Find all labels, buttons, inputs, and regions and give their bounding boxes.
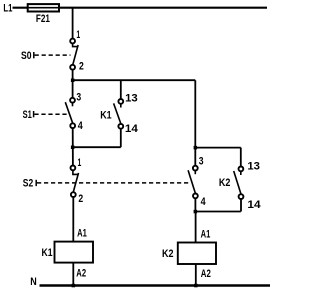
svg-text:3: 3 bbox=[199, 156, 204, 168]
svg-text:K2: K2 bbox=[219, 177, 231, 189]
wire: from S1 terminal 4 down to S2 terminal 1 bbox=[72, 128, 74, 165]
wire: from S2 pole1 terminal 2 down to coil K1 bbox=[72, 197, 74, 241]
svg-text:4: 4 bbox=[78, 120, 83, 132]
pushbutton S2 pole2 terminal circle 3 bbox=[193, 166, 198, 171]
contact K1 terminal circle 14 bbox=[118, 124, 123, 129]
wire: line through fuse body bbox=[28, 7, 59, 9]
svg-text:S2: S2 bbox=[23, 178, 33, 190]
svg-text:14: 14 bbox=[125, 123, 138, 135]
svg-text:K1: K1 bbox=[42, 247, 53, 259]
svg-text:2: 2 bbox=[78, 193, 83, 205]
wire: rejoin line from K1 branch back to main line bbox=[73, 146, 121, 148]
svg-text:13: 13 bbox=[247, 160, 260, 172]
S2 actuator dashed link across both poles bbox=[37, 182, 190, 184]
wire: S2 pole2 fixed contact stub below pin 3 bbox=[194, 171, 196, 175]
coil K1 bbox=[55, 242, 94, 263]
S0 actuator tick bbox=[33, 52, 35, 58]
svg-text:4: 4 bbox=[201, 196, 206, 208]
S0 actuator dashed link bbox=[35, 54, 71, 56]
pushbutton S0 terminal circle 1 bbox=[70, 39, 75, 44]
contact K2 terminal circle 13 bbox=[239, 167, 244, 172]
pushbutton S1 movable blade (NO) bbox=[65, 102, 72, 123]
wire: from S0 terminal 2 down to S1 terminal 3 bbox=[72, 70, 74, 98]
contact K1 terminal circle 13 bbox=[118, 99, 123, 104]
wire: main left vertical drop from top rail to S0 terminal 1 bbox=[72, 8, 74, 39]
wire: S0 fixed contact stub and NC seat tick bbox=[73, 44, 79, 47]
svg-text:14: 14 bbox=[247, 199, 260, 211]
wire: bottom neutral rail N bbox=[40, 284, 271, 287]
pushbutton S2 pole2 movable blade (NO) bbox=[188, 170, 195, 193]
wire: down to coil K2 bbox=[195, 212, 197, 243]
svg-text:3: 3 bbox=[76, 92, 81, 104]
svg-text:A1: A1 bbox=[77, 227, 87, 239]
svg-text:A2: A2 bbox=[76, 268, 86, 280]
wire: from coil K1 down to N rail bbox=[72, 263, 74, 286]
wire: K1 holding branch vertical down to contact K1 pin 13 bbox=[120, 80, 122, 98]
pushbutton S0 movable blade (NC) bbox=[73, 45, 78, 64]
svg-text:1: 1 bbox=[78, 157, 82, 169]
contact K1 movable blade (NO) bbox=[114, 103, 121, 124]
pushbutton S1 terminal circle 3 bbox=[70, 98, 75, 103]
pushbutton S2 pole1 terminal circle 2 bbox=[71, 192, 76, 197]
coil K2 bbox=[178, 243, 216, 265]
svg-text:1: 1 bbox=[76, 29, 80, 41]
wire: K2 fixed contact stub below pin 13 bbox=[240, 172, 242, 176]
pushbutton S0 terminal circle 2 bbox=[70, 65, 75, 70]
wire: rejoin line right section bbox=[195, 211, 241, 213]
svg-text:2: 2 bbox=[79, 61, 84, 73]
node: junction of rejoin line with main line bbox=[71, 146, 75, 150]
node: junction rejoin with K2 coil feed bbox=[194, 210, 198, 214]
pushbutton S2 pole1 terminal circle 1 bbox=[71, 166, 76, 171]
svg-text:K1: K1 bbox=[100, 110, 111, 122]
wire: right section vertical drop from branch line bbox=[194, 80, 196, 147]
wire: from coil K2 down to N rail bbox=[195, 264, 197, 286]
wire: K1 contact pin 14 down to rejoin line bbox=[120, 129, 122, 147]
node: junction of K2 coil with N rail bbox=[194, 284, 198, 288]
wire: K1 fixed contact stub below pin 13 bbox=[120, 104, 122, 108]
contact K2 movable blade (NO) bbox=[234, 171, 241, 194]
wire: S1 fixed contact stub below pin 3 bbox=[72, 103, 74, 107]
svg-text:S0: S0 bbox=[21, 50, 32, 62]
wire: branch line to K1 contact and to right section bbox=[73, 79, 196, 81]
wire: split line over to K2 contact branch bbox=[195, 147, 241, 149]
wire: K2 contact pin 14 down to rejoin line bbox=[240, 199, 242, 211]
contact K2 terminal circle 14 bbox=[239, 194, 244, 199]
wire: S2 pole2 stub down to terminal 3 bbox=[194, 148, 196, 166]
pushbutton S2 pole1 movable blade (NC) bbox=[73, 173, 78, 192]
svg-text:N: N bbox=[30, 276, 37, 288]
svg-text:A2: A2 bbox=[201, 268, 211, 280]
svg-text:S1: S1 bbox=[23, 109, 32, 121]
node: junction right section split bbox=[194, 146, 198, 150]
node: junction of K1 coil with N rail bbox=[72, 284, 76, 288]
pushbutton S1 terminal circle 4 bbox=[70, 123, 75, 128]
pushbutton S2 pole2 terminal circle 4 bbox=[193, 194, 198, 199]
node: junction of main line with K1 holding branch (top) bbox=[71, 79, 75, 83]
wire: K2 contact branch vertical down to pin 13 bbox=[240, 148, 242, 167]
fuse F21 bbox=[28, 4, 59, 11]
svg-text:L1: L1 bbox=[3, 2, 12, 14]
wire: S2 pole2 terminal 4 down to rejoin line bbox=[194, 198, 196, 211]
svg-text:F21: F21 bbox=[36, 13, 50, 25]
wire: S2 pole1 fixed contact stub and NC seat tick bbox=[73, 170, 79, 174]
wire: top supply rail from L1 through fuse to right end bbox=[13, 7, 268, 9]
S2 actuator tick bbox=[35, 180, 37, 186]
svg-text:K2: K2 bbox=[162, 248, 174, 260]
S1 actuator tick bbox=[33, 111, 35, 117]
S1 actuator dashed link bbox=[34, 113, 68, 115]
svg-text:13: 13 bbox=[125, 92, 138, 104]
svg-text:A1: A1 bbox=[201, 229, 211, 241]
